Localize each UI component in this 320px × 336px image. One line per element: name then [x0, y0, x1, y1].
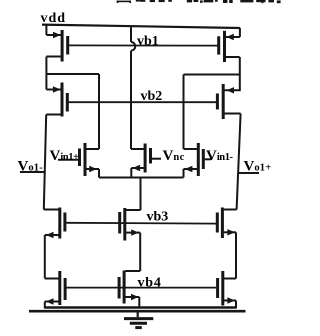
- vb4 label: [138, 276, 162, 291]
- vdd rail: [42, 25, 240, 28]
- ground: [124, 311, 153, 328]
- ground rail: [29, 310, 246, 313]
- node Vo1-: [18, 158, 45, 174]
- Vin1- label: [206, 148, 234, 164]
- vb1 label: [137, 34, 159, 49]
- transistor M9 (NMOS tail current, gate vb3, middle): [118, 208, 140, 271]
- transistor M2 (PMOS current source, gate vb1, right): [217, 28, 240, 62]
- svg-text:vb2: vb2: [141, 89, 163, 104]
- wire: node A (M1 drain / M3 source to M5 drain): [46, 74, 99, 149]
- transistor M7 (NMOS, gate Vnc): [131, 144, 161, 178]
- svg-text:vb4: vb4: [138, 276, 162, 291]
- vb3 net line: [66, 222, 216, 225]
- vdd label: [41, 11, 67, 26]
- cropped figure-caption text fragments (top edge): [117, 0, 281, 3]
- vb2 net line: [69, 101, 217, 103]
- wire: common source tail line: [99, 178, 184, 211]
- svg-text:vb1: vb1: [137, 34, 159, 49]
- wire: source bus above ground rail: [45, 306, 236, 309]
- wire: vdd to M7 drain (center vertical, hops over vb1): [131, 26, 135, 149]
- vb1 net line: [69, 44, 217, 46]
- transistor M6 (NMOS input, gate Vin1-): [184, 143, 212, 178]
- transistor M4 (PMOS cascode, gate vb2, right): [216, 57, 241, 119]
- wire: Vo1+ output column (M4 drain to M10 drain): [237, 114, 241, 210]
- transistor M1 (PMOS current source, gate vb1, left): [46, 25, 69, 61]
- node Vo1+: [239, 158, 272, 174]
- transistor M10 (NMOS cascode, gate vb3, right): [216, 208, 237, 279]
- Vnc label: [163, 148, 185, 164]
- vb3 label: [147, 210, 169, 225]
- svg-text:vb3: vb3: [147, 210, 169, 225]
- vb4 net line: [66, 287, 216, 289]
- Vin1+ label: [50, 148, 80, 164]
- transistor M13 (NMOS current sink, gate vb4, right): [216, 271, 236, 309]
- vb2 label: [141, 89, 163, 104]
- wire: Vo1- output column (M3 drain to M8 drain): [44, 115, 46, 210]
- transistor M3 (PMOS cascode, gate vb2, left): [46, 57, 69, 117]
- transistor M12 (NMOS current sink, gate vb4, middle): [118, 271, 141, 309]
- transistor M5 (NMOS input, gate Vin1+): [58, 143, 99, 178]
- transistor M8 (NMOS cascode, gate vb3, left): [44, 208, 67, 279]
- wire: node B (M2 drain / M4 source to M6 drain): [184, 75, 240, 150]
- transistor M11 (NMOS current sink, gate vb4, left): [45, 271, 67, 309]
